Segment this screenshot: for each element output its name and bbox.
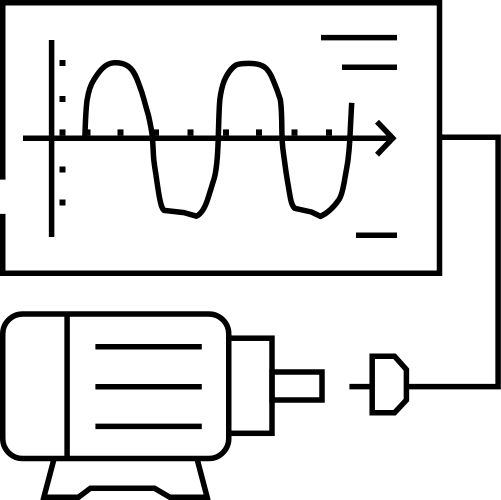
motor left leg [43,458,54,500]
x-axis tick 5 [223,129,229,135]
motor right leg [197,458,208,500]
x-axis tick 4 [188,129,194,135]
waveform (distorted sine) [85,63,352,217]
legend line bottom (minus) [356,232,397,238]
motor vent line 3 [95,424,201,430]
motor body (rounded rectangle) [3,314,229,459]
motor shaft [272,372,322,400]
wire: display to plug (right side) [407,137,499,386]
y-axis tick 4 [60,200,66,206]
motor end cap [229,338,272,433]
y-axis tick 1 [60,60,66,66]
x-axis tick 1 (hidden behind wave leg) [85,129,91,135]
x-axis tick 8 [326,129,332,135]
display rectangle (oscilloscope screen) with gap in left border [3,3,440,274]
x-axis tick 7 [292,129,298,135]
motor divider line [64,313,70,460]
wire stub left of plug [349,384,370,390]
plug connector body [372,356,406,413]
y-axis tick 2 [60,96,66,102]
y-axis tick 3 [60,167,66,173]
x-axis tick 3 [153,129,159,135]
x-axis arrowhead [377,122,393,155]
origin tick [60,129,66,135]
x-axis (horizontal) [23,135,391,141]
x-axis tick 6 [256,129,262,135]
motor vent line 2 [95,384,201,390]
y-axis (vertical) [49,40,55,237]
legend line top 2 [342,64,397,70]
motor base with notch [42,488,209,497]
x-axis tick 2 [118,129,124,135]
legend line top 1 [321,35,397,41]
motor vent line 1 [95,344,201,350]
